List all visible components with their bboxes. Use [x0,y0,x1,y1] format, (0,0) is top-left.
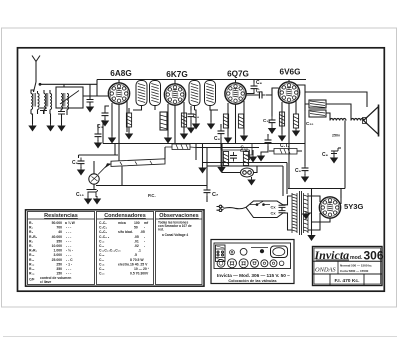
ground C2 [102,118,108,126]
wire 6V6G leads [272,88,289,189]
IF transformer T2 winding b [205,80,216,106]
svg-text:C₄: C₄ [193,114,200,120]
table Condensadores [97,212,154,285]
ground T2 return b [208,110,214,129]
output transformer T3 secondary [309,110,326,117]
wire heater line a [203,163,287,195]
socket 6K7G top [230,250,235,255]
wire T2 to detector [195,106,219,111]
svg-text:C.T.: C.T. [280,143,290,149]
svg-text:C₁₂C₁₃C₁₄C₁₅: C₁₂C₁₃C₁₄C₁₅ [99,249,121,253]
socket row extra b [279,261,284,266]
svg-text:C₁₈: C₁₈ [99,262,105,266]
tone control C.T. [269,149,302,155]
resistor R2 [126,108,131,132]
title block [313,247,383,286]
tube 6K7G [164,80,185,106]
capacitor C15 [87,190,98,198]
svg-text:a Canal Voltage 4: a Canal Voltage 4 [162,233,188,237]
svg-text:350: 350 [56,267,62,271]
svg-text:Normal 550 — 1500 kc: Normal 550 — 1500 kc [340,264,372,268]
wire detector drop [196,144,207,189]
svg-text:6Q7G: 6Q7G [227,70,249,79]
svg-text:C₉: C₉ [256,89,262,95]
dial lamp [241,168,254,177]
svg-text:- - -: - - - [66,230,71,234]
oscillator shield box [56,87,83,108]
ground 6A8G cathode [109,135,115,143]
svg-text:C₈: C₈ [256,80,263,86]
ground R10 [293,128,299,136]
ground AVC end [250,150,256,162]
svg-text:red.: red. [158,228,164,232]
ground C16 [269,126,275,134]
resistor R4 [181,113,186,127]
wire 6Q7G leads [228,101,244,144]
svg-text:R₁₂: R₁₂ [29,262,35,266]
RF coil L2 [44,90,52,114]
wire screen bus [304,104,306,166]
capacitor C4 [188,106,195,126]
resistor R6 [223,114,228,128]
svg-text:R₁₁: R₁₁ [29,258,35,262]
svg-text:100: 100 [134,221,140,225]
ground C4 [188,125,194,133]
label strip [251,247,268,249]
svg-text:-: - [144,226,145,230]
capacitor CX a [279,205,286,211]
capacitor C7 [204,187,211,203]
ground C6 [95,140,101,148]
svg-text:- - -: - - - [66,226,71,230]
svg-text:.02: .02 [134,244,139,248]
ground 6Q7G cathode [225,135,231,143]
socket row 5Y3G [217,259,225,267]
ground 6V6G cathode [279,133,285,141]
svg-text:- - -: - - - [66,267,71,271]
oscillator trimmer [58,112,65,125]
ground C9 [302,174,308,182]
svg-text:R₃: R₃ [29,230,33,234]
svg-text:R₁₀: R₁₀ [29,253,35,257]
tables block [26,210,205,286]
power switch [250,201,270,205]
svg-text:- - -: - - - [66,235,71,239]
tube 5Y3G [319,197,340,218]
capacitor C18 [331,148,341,157]
wire antenna switch [34,82,41,92]
svg-text:C₉: C₉ [214,136,220,142]
antenna [32,56,40,83]
capacitor C6 [95,124,102,140]
tube 6V6G [278,80,299,104]
svg-text:.05: .05 [140,230,145,234]
svg-text:P.C.: P.C. [148,193,156,198]
capacitor C16 [269,95,276,126]
svg-text:-: - [144,244,145,248]
svg-text:F.I. 470 Kc.: F.I. 470 Kc. [334,278,360,284]
svg-text:C₂₀: C₂₀ [306,121,313,126]
wire grid 6A8G [83,80,109,97]
svg-text:C₁₅: C₁₅ [76,192,85,198]
svg-text:40.000: 40.000 [52,235,62,239]
svg-text:C₇C₈ ₉: C₇C₈ ₉ [99,235,110,239]
capacitor C11 grid [265,134,272,146]
capacitor C10 coupling [247,88,279,99]
socket row 6Q7G b [239,259,248,268]
svg-text:C₉: C₉ [295,168,301,174]
svg-text:R₇: R₇ [29,244,33,248]
svg-text:.1: .1 [138,249,141,253]
svg-text:Colocación de las válvulas: Colocación de las válvulas [228,279,276,283]
mains cord [224,207,247,208]
coil choke L4 [160,112,167,130]
svg-text:.01: .01 [134,239,139,243]
padder capacitor [40,108,47,114]
ground heater [248,177,254,185]
svg-text:25.000: 25.000 [52,258,62,262]
wiper arrow [98,163,112,174]
wire 6Q7G plate drop [246,144,252,156]
wire field coil B+ drop [344,121,346,189]
svg-text:- - -: - - - [66,253,71,257]
svg-text:6V6G: 6V6G [280,68,301,77]
power transformer top view [216,245,226,262]
socket row extra a [270,260,277,267]
mains plug [217,205,224,211]
ground C15 b [94,196,100,204]
resistor R8 [223,152,228,166]
svg-text:C.V.: C.V. [240,148,248,153]
wire heater line b [207,166,283,196]
svg-text:Invicta: Invicta [314,248,350,262]
svg-text:Cx: Cx [271,205,277,210]
socket row 6K7G b [251,259,259,267]
socket row 6V6G [228,259,237,268]
svg-text:R₁: R₁ [29,221,33,225]
svg-text:electro.: electro. [118,262,130,266]
wire AVC bus [103,143,305,145]
svg-text:.05: .05 [134,235,139,239]
wire secondary loop [326,104,351,121]
wire mains to transformer [283,196,292,230]
wire T1 secondary to 6K7G grid [133,106,155,111]
wire bus secondary [196,147,259,149]
oscillator coil L3 [61,93,69,113]
svg-text:250v: 250v [332,134,340,138]
svg-text:5Y3G: 5Y3G [344,202,364,211]
detector network box [221,150,250,166]
mains cable split [246,201,283,218]
resistor R11 [243,152,248,166]
capacitor C2 [102,106,110,119]
svg-text:Condensadores: Condensadores [104,213,146,219]
wire 6A8G cathode leads [112,101,127,144]
dial lamp top [240,248,247,255]
svg-text:306: 306 [364,248,384,262]
svg-text:C₇: C₇ [212,192,218,198]
svg-text:C₃: C₃ [97,124,104,130]
IF transformer T1 winding b [150,80,161,106]
resistor R9 [279,112,284,126]
svg-text:R₁₄: R₁₄ [29,272,35,276]
svg-text:C₅: C₅ [72,160,79,166]
speaker top view [271,246,288,258]
tube 6A8G [108,80,129,105]
svg-text:c/ llave: c/ llave [40,280,51,284]
power transformer T4 core [300,191,302,235]
svg-text:10 — 20 ¹: 10 — 20 ¹ [134,267,150,271]
svg-text:350: 350 [56,239,62,243]
svg-text:-: - [144,235,145,239]
ground 6K7G cathode [165,135,171,143]
wire B+ rail [288,188,345,190]
wire 5Y3G cathode to B+ [312,189,342,223]
ground oscillator coil [58,113,67,131]
svg-text:1.000: 1.000 [54,249,63,253]
wire AF return bus [96,185,207,187]
svg-text:Resistencias: Resistencias [44,213,78,219]
ground R2 [126,131,132,139]
svg-text:C₃C₄: C₃C₄ [99,226,107,230]
ground antenna coil [29,112,37,131]
svg-text:250: 250 [56,262,62,266]
svg-text:R₄R₅: R₄R₅ [29,235,38,239]
capacitor C1 [87,84,94,105]
capacitor C12 [218,124,225,150]
wire rectifier output [312,189,342,235]
svg-text:R₁₃: R₁₃ [29,267,35,271]
power transformer T4 primary [292,193,297,233]
ground RF coil [44,112,54,131]
capacitor C14 [230,152,237,162]
capacitor C8 [247,80,258,94]
svg-text:40: 40 [58,230,62,234]
svg-text:50.000: 50.000 [52,221,62,225]
svg-text:- - -: - - - [66,239,71,243]
svg-text:- - -: - - - [66,244,71,248]
speaker voice coil and field coil [330,118,364,120]
svg-text:Cx: Cx [271,211,277,216]
svg-text:Invicta — Mod. 306 — 115 V. 50: Invicta — Mod. 306 — 115 V. 50 ~ [217,273,290,278]
resistor R5 [165,144,196,150]
ground R4 [181,127,187,139]
wire HV secondary to 5Y3G plates [308,196,320,230]
svg-text:50: 50 [134,226,138,230]
svg-text:.5: .5 [134,253,137,257]
observation text lines [158,221,192,238]
svg-text:- 1 -: - 1 - [66,262,72,266]
svg-text:- ½ -: - ½ - [66,249,73,253]
wire 6K7G cathode leads [119,102,184,161]
svg-text:- - C: - - C [66,258,73,262]
svg-text:C₁₉: C₁₉ [99,267,105,271]
svg-text:0.5 70.300V: 0.5 70.300V [130,272,149,276]
capacitor C5 [78,158,85,168]
capacitor C9 filter [302,165,309,175]
ground C1 [87,104,93,112]
svg-text:a ¼ W: a ¼ W [65,221,76,225]
ground power supply [308,233,314,241]
svg-text:C₁₀: C₁₀ [99,239,105,243]
wire antenna bus [41,80,97,88]
ground T2 return a [193,110,199,129]
svg-text:6A8G: 6A8G [110,69,131,78]
wire lamp riser [221,144,223,173]
ground C15 a [85,196,91,204]
top bus wire [97,79,306,81]
svg-text:8 70.5 W: 8 70.5 W [130,258,144,262]
antenna coil L1 [31,90,39,114]
socket 6Q7G top [260,249,264,253]
wire heater run [222,166,257,179]
tube 6Q7G [225,80,246,105]
resistor R7 [238,114,243,128]
ground detector a [199,144,205,173]
svg-text:Observaciones: Observaciones [159,213,198,219]
svg-text:C₁₁: C₁₁ [99,244,105,248]
wire 6V6G plate to output transformer [296,85,367,107]
svg-text:700: 700 [56,226,62,230]
condenser value rows [99,221,150,276]
svg-text:6K7G: 6K7G [166,70,187,79]
svg-text:C₈: C₈ [322,152,329,158]
speaker cone [363,105,379,137]
resistor value rows [29,221,76,285]
output transformer T3 primary [305,92,326,111]
socket row 6A8G b [261,260,268,267]
IF transformer T2 winding a [189,80,200,106]
svg-text:Corta 5800 — 15500: Corta 5800 — 15500 [340,269,369,273]
ground C18 [331,155,337,163]
resistor R10 [293,100,298,128]
svg-text:- - -: - - - [66,272,71,276]
svg-text:150: 150 [56,272,62,276]
table Resistencias [28,212,95,285]
ground C11 [258,146,268,161]
svg-text:C₁C₂: C₁C₂ [99,221,107,225]
svg-text:mod.: mod. [350,255,363,261]
ground detector b [218,165,224,173]
power transformer T4 secondary [304,193,309,233]
svg-text:C₁₆: C₁₆ [263,118,270,123]
ground R7 [241,128,247,141]
svg-text:ONDAS: ONDAS [315,267,336,274]
svg-text:s/fo blad.: s/fo blad. [118,230,133,234]
volume control slider [111,147,165,186]
wire screen bus lower [79,154,119,156]
svg-text:C₅C₆: C₅C₆ [99,230,107,234]
table Observaciones [156,212,203,285]
wire bus riser left [79,120,116,158]
svg-text:16 40. 25 V: 16 40. 25 V [130,262,148,266]
IF transformer T1 winding a [136,80,147,106]
svg-text:R₈R₉: R₈R₉ [29,249,37,253]
svg-text:R₂: R₂ [29,226,33,230]
svg-text:C₁₆: C₁₆ [99,253,105,257]
svg-text:3.000: 3.000 [54,253,63,257]
svg-text:10.000: 10.000 [52,244,62,248]
svg-text:R₆: R₆ [29,239,33,243]
svg-text:-: - [144,239,145,243]
ground center tap [303,211,309,219]
chassis layout box [211,240,294,284]
potentiometer volume [89,161,99,189]
svg-text:C₂₀: C₂₀ [99,272,105,276]
svg-text:mica: mica [118,221,126,225]
svg-text:C₁₇: C₁₇ [99,258,105,262]
ground C5 [78,167,84,175]
capacitor CX b [279,211,286,214]
